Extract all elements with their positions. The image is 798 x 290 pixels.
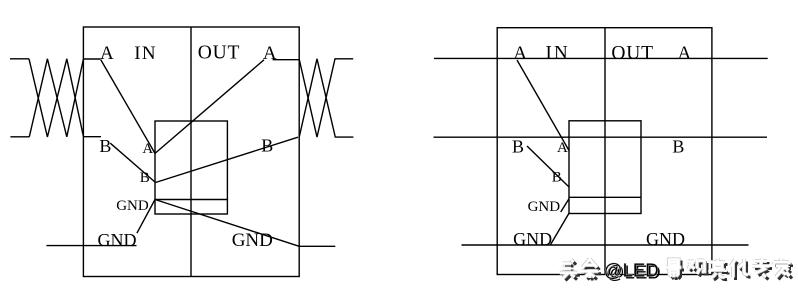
wire: B label to block pin B — [527, 146, 569, 187]
svg-text:OUT: OUT — [198, 43, 240, 64]
svg-text:A: A — [678, 43, 692, 64]
right terminal block divider — [569, 196, 641, 198]
wire: left twisted-pair bottom lead — [10, 136, 29, 138]
svg-text:A: A — [142, 141, 153, 157]
left twisted pair conductor 1 — [29, 59, 83, 137]
left terminal block divider — [155, 199, 227, 201]
svg-text:A: A — [513, 43, 527, 64]
svg-text:IN: IN — [546, 43, 570, 64]
wire: stub A IN terminal — [83, 58, 100, 60]
svg-text:B: B — [99, 136, 111, 156]
svg-text:B: B — [261, 136, 273, 156]
wire: A bus line — [434, 57, 768, 59]
svg-text:@LED: @LED — [604, 259, 659, 280]
right box center divider wire — [604, 28, 606, 275]
svg-text:B: B — [672, 137, 684, 157]
wire: block pin GND to GND OUT corner — [155, 200, 299, 247]
svg-text:OUT: OUT — [611, 43, 653, 64]
svg-text:B: B — [552, 170, 562, 186]
wire: GND lead to block corner — [550, 213, 569, 245]
wire: B IN label to block pin B — [110, 143, 155, 182]
watermark white layer — [560, 259, 790, 279]
svg-text:GND: GND — [528, 199, 561, 215]
svg-text:B: B — [512, 136, 524, 156]
svg-text:GND: GND — [98, 230, 137, 250]
wire: A label to block pin A — [517, 60, 569, 151]
svg-text:A: A — [263, 43, 277, 64]
left box center divider wire — [190, 27, 192, 277]
left twisted pair conductor 2 — [29, 59, 83, 137]
left splitter box outline — [83, 27, 299, 277]
watermark halo layer — [560, 259, 790, 279]
wire: A IN label to block pin A — [101, 60, 155, 154]
right twisted pair conductor 2 — [299, 59, 353, 137]
wire: stub A OUT terminal — [273, 59, 300, 61]
svg-text:A: A — [100, 43, 114, 64]
svg-text:B: B — [140, 170, 150, 186]
svg-text:GND: GND — [116, 198, 149, 214]
wire: left twisted-pair top lead — [10, 58, 29, 60]
right twisted pair conductor 1 — [299, 59, 353, 137]
svg-text:GND: GND — [513, 229, 552, 249]
wire: B bus line — [434, 136, 768, 138]
svg-text:GND: GND — [232, 230, 273, 251]
wire: GND IN lead — [46, 245, 136, 247]
svg-text:A: A — [557, 140, 568, 156]
wire: A OUT label to block pin A — [155, 60, 264, 154]
wire: GND IN label to block pin GND — [137, 200, 155, 234]
wire: GND label to block pin GND — [561, 199, 569, 212]
right splitter box outline — [497, 28, 712, 275]
left terminal block (inner rectangle) — [155, 121, 227, 214]
wire: block pin B to B OUT terminal — [156, 137, 299, 182]
svg-text:IN: IN — [134, 43, 157, 64]
svg-text:GND: GND — [646, 229, 685, 249]
wire: stub B IN terminal — [83, 136, 101, 138]
wire: GND bus line — [462, 244, 749, 246]
wire: GND OUT lead — [299, 245, 335, 247]
watermark shadow layer — [562, 261, 792, 281]
right terminal block (inner rectangle) — [569, 121, 641, 214]
